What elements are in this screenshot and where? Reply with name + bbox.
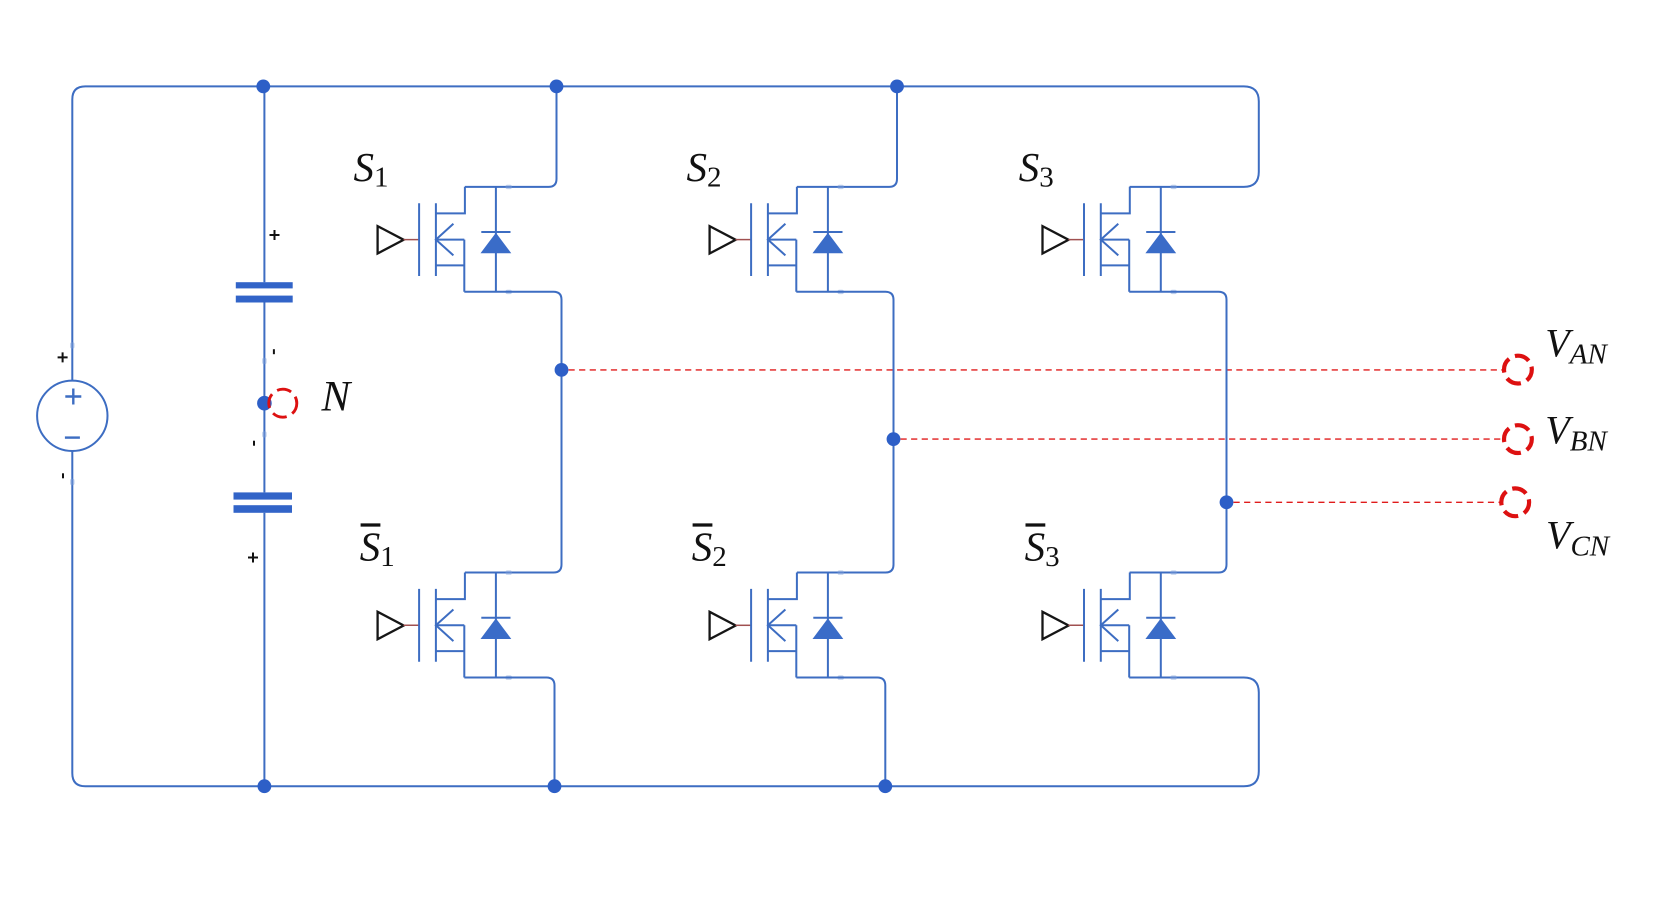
label C1 minus terminal (273, 349, 275, 354)
wire port tick cap upper (262, 358, 266, 364)
svg-text:S3: S3 (1019, 144, 1054, 194)
wire capacitor midpoint (263, 303, 265, 493)
transistor S1b (378, 570, 512, 679)
wire bottom DC- bus (left vertical, bottom rail, right rise to S3b source) (72, 451, 1259, 787)
node VCN marker circle (1501, 488, 1529, 516)
wire leg A top (465, 86, 557, 186)
svg-text:VCN: VCN (1546, 513, 1611, 563)
node N dot (257, 396, 272, 411)
transistor S3 (1043, 185, 1177, 294)
junction dot bottom rail capacitor (258, 779, 272, 793)
svg-text:S3: S3 (1025, 524, 1060, 574)
label V1 plus terminal (58, 352, 68, 362)
label V1 minus terminal (62, 473, 64, 478)
svg-text:S2: S2 (687, 144, 722, 194)
node A dot (555, 363, 569, 377)
junction dot top rail leg A (550, 80, 564, 94)
label S3 overbar (1026, 523, 1046, 526)
wire leg B phase (796, 292, 893, 573)
label C2 minus terminal (253, 441, 255, 446)
wire leg A bottom (464, 678, 554, 787)
transistor S2 (710, 185, 844, 294)
junction dot top rail capacitor (256, 80, 270, 94)
wire leg B top (797, 86, 897, 186)
transistor S3b (1043, 570, 1177, 679)
junction dot bottom rail leg B (878, 779, 892, 793)
node VAN marker circle (1504, 356, 1532, 384)
label C2 plus terminal (248, 553, 258, 563)
wire port tick source top (70, 342, 74, 348)
svg-text:S1: S1 (360, 524, 395, 574)
wire VCN measurement dashed (1234, 501, 1500, 503)
svg-text:N: N (321, 374, 353, 421)
label S1 overbar (361, 523, 381, 526)
wire top DC+ bus (left vertical, top rail, right drop to S3 drain) (72, 86, 1259, 381)
wire capacitor branch lower (263, 513, 265, 786)
voltage source V1 (37, 381, 107, 451)
wire port tick source bottom (70, 479, 74, 485)
node C dot (1220, 495, 1234, 509)
wire leg C phase (1129, 292, 1226, 573)
junction dot top rail leg B (890, 80, 904, 94)
wire leg B bottom (796, 678, 885, 787)
wire VAN measurement dashed (569, 369, 1503, 371)
junction dot bottom rail leg A (548, 779, 562, 793)
svg-text:S2: S2 (692, 524, 727, 574)
wire VBN measurement dashed (901, 438, 1503, 440)
capacitor C1 (236, 282, 293, 288)
transistor S2b (710, 570, 844, 679)
label C1 plus terminal (270, 230, 280, 240)
wire leg A phase (464, 292, 561, 573)
node VBN marker circle (1504, 425, 1532, 453)
svg-text:S1: S1 (354, 144, 389, 194)
svg-text:VAN: VAN (1545, 321, 1608, 371)
transistor S1 (378, 185, 512, 294)
node N marker circle (269, 389, 297, 417)
label S2 overbar (693, 523, 713, 526)
svg-text:VBN: VBN (1545, 407, 1608, 457)
node B dot (887, 432, 901, 446)
wire capacitor branch upper (263, 86, 265, 282)
wire port tick cap lower (262, 431, 266, 437)
capacitor C2 (234, 492, 293, 499)
